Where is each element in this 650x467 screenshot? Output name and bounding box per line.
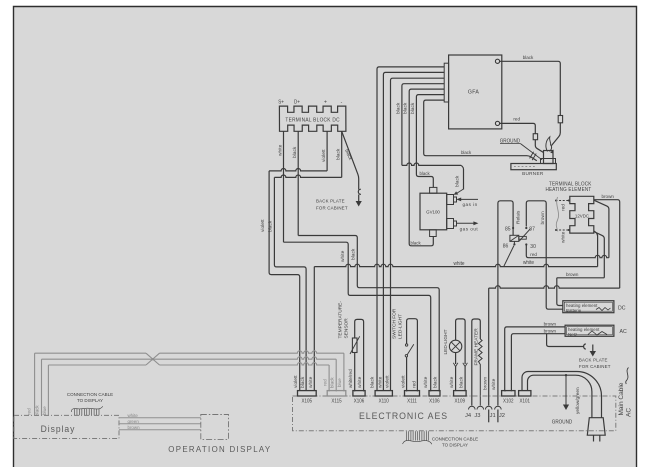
burner pedestal [541,159,556,164]
svg-text:brown: brown [482,377,488,390]
GFA wire 4 gas-in [402,84,444,166]
GFA wire 2 to X110 white [383,72,444,390]
GFA wire 6 GV100 top [416,95,444,188]
relay n-shape right [526,201,546,258]
ground arrow main [563,405,569,411]
svg-text:GROUND: GROUND [552,419,573,425]
brown row corner up [594,232,605,278]
wire black route [298,236,439,392]
svg-text:X106: X106 [354,398,365,404]
svg-text:black: black [410,102,416,114]
J1 brown row [489,286,620,288]
svg-text:green: green [128,419,140,424]
operation display connector box [201,415,229,440]
svg-text:X105: X105 [302,398,313,404]
svg-text:S+: S+ [278,99,284,105]
relay n-shape left [498,201,513,403]
white bus corner up [594,231,598,267]
back plate connector arc 2 [584,344,586,349]
white bus [314,264,597,266]
svg-text:GFA: GFA [468,90,480,96]
thermistor wire to X106 [354,353,356,392]
svg-text:black: black [433,376,439,388]
relay terminal 86 dot [513,243,515,245]
GV100 gas-in tab [447,195,454,205]
igniter flame [546,137,552,152]
GFA red wire [500,123,536,133]
connector X101 [519,391,531,396]
X102 wires [504,390,506,393]
GFA pin strip [444,63,448,102]
connector X105 [298,391,317,396]
frame heater wiring [472,319,481,406]
display cable row 2 [42,357,337,359]
wire violett left vertical [269,171,300,391]
svg-text:LED-LIGHT: LED-LIGHT [398,314,404,339]
svg-text:black: black [335,148,341,160]
back plate wire from netz [547,334,584,347]
svg-text:white: white [128,413,139,418]
connector X102 [502,391,515,396]
display box [14,415,119,438]
svg-text:gas out: gas out [460,226,479,232]
svg-text:AC: AC [620,329,627,335]
svg-text:SWITCH FOR: SWITCH FOR [392,308,398,339]
back plate connector arc [358,189,361,194]
GV100 box [420,193,447,230]
display cable row 3 [48,364,146,366]
led lamp symbol [449,340,461,352]
switch wire to X111 [406,357,408,391]
svg-text:TERMINAL BLOCK DC: TERMINAL BLOCK DC [285,117,339,123]
svg-text:red: red [561,204,567,211]
svg-text:black: black [300,376,306,388]
svg-text:J1: J1 [490,413,496,419]
svg-text:black: black [351,248,357,260]
svg-text:TO DISPLAY: TO DISPLAY [77,398,104,403]
heating element Batterie resistor mark [596,308,611,311]
burner igniter holder [544,151,554,164]
GV100 bottom tab [430,230,437,237]
svg-text:black: black [403,102,409,114]
display cable left verticals [34,353,36,415]
svg-text:red: red [513,116,520,121]
GFA wire 7 burner black [424,100,537,161]
svg-text:black: black [461,150,472,155]
svg-text:LED-LIGHT: LED-LIGHT [443,329,449,354]
relay coil to 86 wire [513,241,515,243]
svg-text:D+: D+ [294,99,300,105]
svg-text:FRAME HEATER: FRAME HEATER [474,328,480,366]
svg-text:gas in: gas in [463,202,478,208]
terminal block heating element 12VDC [570,196,594,233]
red wire to igniter [535,140,543,153]
svg-text:violett: violett [400,375,406,388]
svg-text:blue: blue [337,378,342,387]
svg-text:CONNECTION CABLE: CONNECTION CABLE [67,392,113,397]
svg-text:Display: Display [41,424,76,434]
connector X115 [327,391,346,396]
relay armature link [519,236,527,239]
connection cable hatch left [71,406,102,415]
svg-text:violett: violett [321,149,327,162]
svg-text:white: white [308,376,314,388]
svg-text:black: black [370,376,376,388]
main cable squiggle [626,368,629,385]
svg-text:12VDC: 12VDC [575,213,590,218]
svg-text:BACK PLATE: BACK PLATE [316,198,345,203]
svg-text:Relais: Relais [516,210,522,224]
netz brown wire 2 [511,334,565,392]
svg-text:X102: X102 [503,398,514,404]
svg-text:BACK PLATE: BACK PLATE [579,357,608,362]
svg-text:FOR CABINET: FOR CABINET [579,364,611,369]
svg-text:white: white [423,376,429,388]
svg-text:black: black [455,175,461,187]
svg-text:X109: X109 [455,398,466,404]
display to operation wires [119,417,201,419]
GFA wire 5 GV100 bottom [409,89,444,246]
connector X106a [353,391,365,396]
wire X105 white [313,267,315,391]
red row [546,255,609,257]
svg-text:Netz: Netz [568,332,578,337]
svg-text:HEATING ELEMENT: HEATING ELEMENT [546,187,592,193]
svg-text:TO DISPLAY: TO DISPLAY [442,442,469,447]
electronic AES board [293,396,616,431]
svg-text:SENSOR: SENSOR [343,318,349,339]
svg-text:white: white [449,376,455,388]
J3 arc [477,406,484,409]
svg-text:white: white [453,261,464,267]
svg-text:red: red [27,408,32,415]
svg-text:85: 85 [505,227,511,233]
svg-text:86: 86 [503,244,509,250]
wire black left vertical [274,177,306,390]
svg-text:white/red: white/red [348,369,353,388]
wire black from D+ [297,131,299,235]
wire black diagonal to back plate [342,131,359,189]
svg-text:J3: J3 [474,413,480,419]
relay terminal 30 dot [525,243,527,245]
relay 30 red wire [526,246,546,258]
svg-text:FOR CABINET: FOR CABINET [316,205,348,210]
heating element Netz resistor mark [588,331,607,335]
svg-text:black: black [292,146,298,158]
svg-text:TERMINAL BLOCK: TERMINAL BLOCK [549,181,592,187]
X101 wire 1 [522,372,602,418]
back plate ground arrow 2 [592,345,594,352]
GV100 gas-out tab [447,219,454,229]
plug prongs [594,435,600,441]
temperature sensor thermistor [352,338,357,353]
burner base plate [511,164,556,170]
yellow/green ground wire [565,374,567,376]
GV100 top tab [430,187,437,193]
brown row [557,277,605,279]
wire violett from + [326,131,328,171]
relay switch arm [519,229,530,241]
svg-text:brown: brown [544,321,557,326]
svg-text:black: black [420,171,431,176]
J1 arc [485,406,492,409]
relay 86 wire diagonal [504,246,514,267]
GFA wire 3 to X110 violett [391,78,445,391]
svg-text:white: white [523,260,534,266]
svg-text:+: + [324,100,327,106]
terminal block DC [279,106,346,131]
black wire to igniter [552,123,561,146]
connection cable hatch bottom [403,431,432,444]
frame heater resistor [479,339,483,406]
svg-text:black: black [523,55,534,60]
wire to batterie top [557,278,563,306]
led leg wires to X109 [455,367,457,392]
temperature sensor wiring [355,319,364,391]
12VDC dashed wire red [556,200,570,202]
relay terminal 85 dot [512,227,514,229]
svg-text:white: white [278,144,284,156]
svg-text:ELECTRONIC AES: ELECTRONIC AES [359,411,448,421]
svg-text:X115: X115 [331,398,342,404]
connector component on black wire [558,116,562,123]
J2 wire below [497,410,499,423]
svg-text:X110: X110 [379,398,390,404]
red row corner up [594,200,609,257]
heating element Netz box [565,325,614,336]
connector X110 [375,391,392,396]
connector X109 [454,391,467,396]
display cable right verticals [343,353,345,391]
svg-text:TEMPERATURE-: TEMPERATURE- [337,301,343,339]
wire white from S+ [283,131,285,242]
svg-text:black: black [267,220,273,232]
netz brown wire 1 [505,327,565,391]
J1 wire [488,288,490,405]
svg-text:red: red [411,381,417,388]
J1 wire below [488,410,490,423]
svg-text:Batterie: Batterie [566,308,582,313]
12VDC cable wavy line [556,197,558,231]
svg-text:black: black [458,376,464,388]
svg-text:white: white [377,376,383,388]
svg-text:white: white [340,250,346,262]
svg-text:white: white [491,378,497,390]
12VDC dashed wire white [556,229,570,231]
svg-text:violett: violett [260,219,266,232]
svg-text:black: black [330,377,335,388]
svg-text:black: black [34,405,39,416]
svg-text:X106: X106 [429,398,440,404]
display cable row 1 [35,352,146,354]
J2 arc [495,406,502,409]
connector X106b [429,391,440,396]
led lamp wiring [456,319,466,364]
svg-text:Main Cable: Main Cable [618,382,625,415]
svg-text:white: white [561,231,567,243]
svg-text:DC: DC [618,306,626,312]
gas in arrow [459,198,478,200]
X101 wire 2 [528,375,592,418]
svg-text:blue: blue [42,406,47,415]
svg-text:X101: X101 [519,398,530,404]
led leg arrows [453,363,467,367]
relay terminal 87 dot [525,227,527,229]
display cable crossover [146,353,160,365]
J2 wire [497,403,499,406]
wire to batterie bottom [546,258,563,310]
svg-text:BURNER: BURNER [522,171,544,177]
GFA terminal circle bottom [495,121,499,125]
led lamp lower wire [455,353,457,364]
svg-text:brown: brown [566,272,579,277]
mains plug [587,418,605,436]
GFA wire 1 to X110 black [377,67,444,391]
svg-text:OPERATION DISPLAY: OPERATION DISPLAY [168,445,271,454]
svg-text:violett: violett [293,375,299,388]
svg-text:brown: brown [544,328,557,333]
J1 row corner up [594,200,620,288]
svg-text:red: red [530,252,537,257]
GFA black wire to burner [500,61,561,115]
wire white route [284,242,431,391]
wire row black to left [274,175,341,177]
GFA terminal circle top [495,59,499,63]
svg-text:violett: violett [385,375,391,388]
ground connector chevrons [530,152,537,160]
svg-text:brown: brown [128,425,140,430]
svg-text:black: black [411,240,422,245]
back plate ground arrow [358,195,360,202]
gas out arrow [457,222,476,224]
svg-text:AC: AC [626,408,633,417]
gas-in wire arrowhead [457,189,464,193]
svg-text:CONNECTION CABLE: CONNECTION CABLE [432,436,478,441]
svg-text:red: red [322,379,327,386]
svg-text:black: black [395,102,401,114]
svg-text:white: white [357,376,363,388]
svg-text:brown: brown [602,194,615,199]
svg-text:GV100: GV100 [426,209,440,214]
svg-text:30: 30 [530,244,536,250]
heating element Batterie box [563,301,614,313]
svg-text:J4: J4 [465,413,472,419]
wire black from minus [341,131,343,177]
wire row violett to left [269,168,327,170]
GFA box [449,55,502,129]
ground pointer line [521,144,543,160]
svg-text:J2: J2 [499,413,505,419]
switch contact [405,344,407,346]
svg-text:brown: brown [540,211,546,224]
J4 arc [469,406,476,409]
svg-text:yellow/green: yellow/green [575,387,581,414]
svg-text:X111: X111 [407,398,417,404]
switch wiring [407,319,418,392]
connector X111 [405,391,420,396]
connector component on red wire [533,134,537,140]
relay coil [510,235,519,241]
